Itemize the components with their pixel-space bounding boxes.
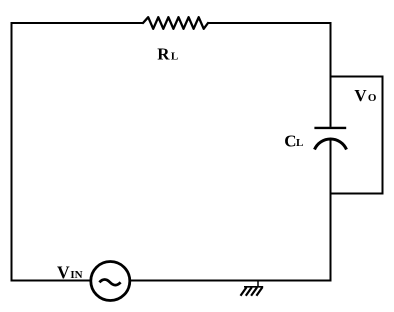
capacitor CL top plate — [314, 127, 346, 129]
svg-text:C: C — [284, 131, 296, 150]
svg-text:V: V — [57, 262, 70, 282]
wire left side — [11, 22, 13, 281]
sine wave inside source — [99, 280, 120, 286]
voltage source VIN — [91, 262, 130, 301]
wire bottom right segment — [130, 280, 332, 282]
svg-text:L: L — [171, 50, 178, 62]
wire top left segment — [11, 22, 144, 24]
ground — [241, 281, 264, 296]
svg-text:L: L — [296, 137, 303, 149]
svg-text:IN: IN — [70, 269, 82, 281]
svg-text:R: R — [157, 45, 170, 64]
resistor RL — [143, 17, 208, 29]
wire right side upper (to capacitor top plate) — [330, 22, 332, 127]
output box VO — [331, 77, 383, 194]
svg-text:O: O — [368, 92, 377, 104]
svg-text:V: V — [354, 86, 367, 105]
wire bottom left segment — [11, 280, 90, 282]
wire right side lower (capacitor to bottom) — [330, 140, 332, 282]
capacitor CL bottom curved plate — [315, 139, 347, 150]
wire top right segment — [208, 22, 332, 24]
